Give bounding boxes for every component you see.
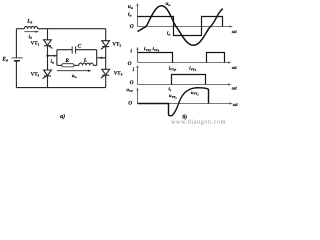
axis row2 vertical — [137, 49, 139, 63]
wire right branch middle — [105, 46, 107, 70]
wire load branch right — [97, 57, 106, 59]
wire right branch upper — [105, 29, 107, 41]
wire R to L — [74, 64, 79, 66]
svg-text:uн: uн — [72, 74, 77, 79]
node A junction dot — [46, 55, 48, 57]
svg-text:O: O — [128, 61, 132, 67]
load box bottom edge left — [57, 64, 62, 66]
svg-text:iVT2,: iVT2, — [169, 66, 177, 73]
waveform panel — [138, 5, 231, 104]
svg-text:R: R — [64, 58, 69, 64]
svg-text:www.diangon.com: www.diangon.com — [171, 118, 226, 125]
axis row4 horizontal — [138, 103, 231, 105]
svg-text:O: O — [128, 101, 132, 107]
wire left branch from top — [47, 29, 49, 40]
arrow in current — [49, 55, 57, 57]
axis row3 vertical — [137, 67, 139, 85]
thyristor VT4 — [101, 69, 110, 78]
load box top edge left of C — [57, 49, 72, 51]
thyristor VT3 — [43, 70, 52, 79]
wire bottom — [16, 87, 105, 89]
wire VT4 to bottom — [105, 75, 107, 87]
axis arrowheads — [136, 3, 233, 105]
load box left edge — [56, 50, 58, 66]
capacitor C — [72, 46, 75, 53]
wire left vertical upper — [15, 29, 17, 58]
wire load branch left — [48, 55, 57, 57]
resistor R — [62, 64, 74, 67]
trace in square row1 — [138, 17, 223, 36]
load box right edge — [96, 50, 98, 66]
trace iVT2 iVT3 row3 — [172, 75, 206, 85]
arrow un voltage — [57, 70, 92, 72]
axis row4 vertical — [137, 90, 139, 104]
svg-text:uVT: uVT — [126, 87, 133, 93]
wire L to box corner — [93, 64, 96, 66]
wire top right segment — [38, 28, 106, 30]
axis row2 horizontal — [138, 62, 230, 64]
wire top left segment — [16, 28, 24, 30]
svg-text:а): а) — [60, 113, 65, 120]
axis row1 horizontal — [138, 26, 231, 28]
svg-text:ωt: ωt — [232, 66, 237, 71]
trace uVT1 row4 — [138, 88, 209, 116]
svg-text:C: C — [78, 44, 82, 50]
thyristor VT1 — [44, 40, 53, 49]
inductor L — [79, 63, 93, 65]
battery Ed — [11, 58, 22, 61]
node B junction arrow — [101, 57, 105, 59]
svg-text:L: L — [83, 57, 88, 63]
svg-text:ωt: ωt — [233, 103, 238, 108]
svg-text:O: O — [130, 24, 134, 30]
svg-text:ωt: ωt — [232, 87, 237, 92]
wire VT1 to node — [47, 46, 49, 70]
axis row3 horizontal — [138, 84, 230, 86]
wire left vertical lower — [15, 61, 17, 88]
thyristor VT2 — [101, 41, 110, 50]
svg-text:ωt: ωt — [232, 30, 237, 35]
axis row1 vertical — [137, 5, 139, 27]
load box top edge right of C — [76, 49, 97, 51]
trace iVT1 iVT4 row2 — [138, 53, 225, 63]
wire VT3 to bottom — [47, 76, 49, 88]
svg-text:O: O — [130, 80, 134, 86]
trace un sine row1 — [138, 6, 223, 46]
arrow id current — [24, 31, 39, 33]
inductor Ld — [24, 26, 37, 28]
